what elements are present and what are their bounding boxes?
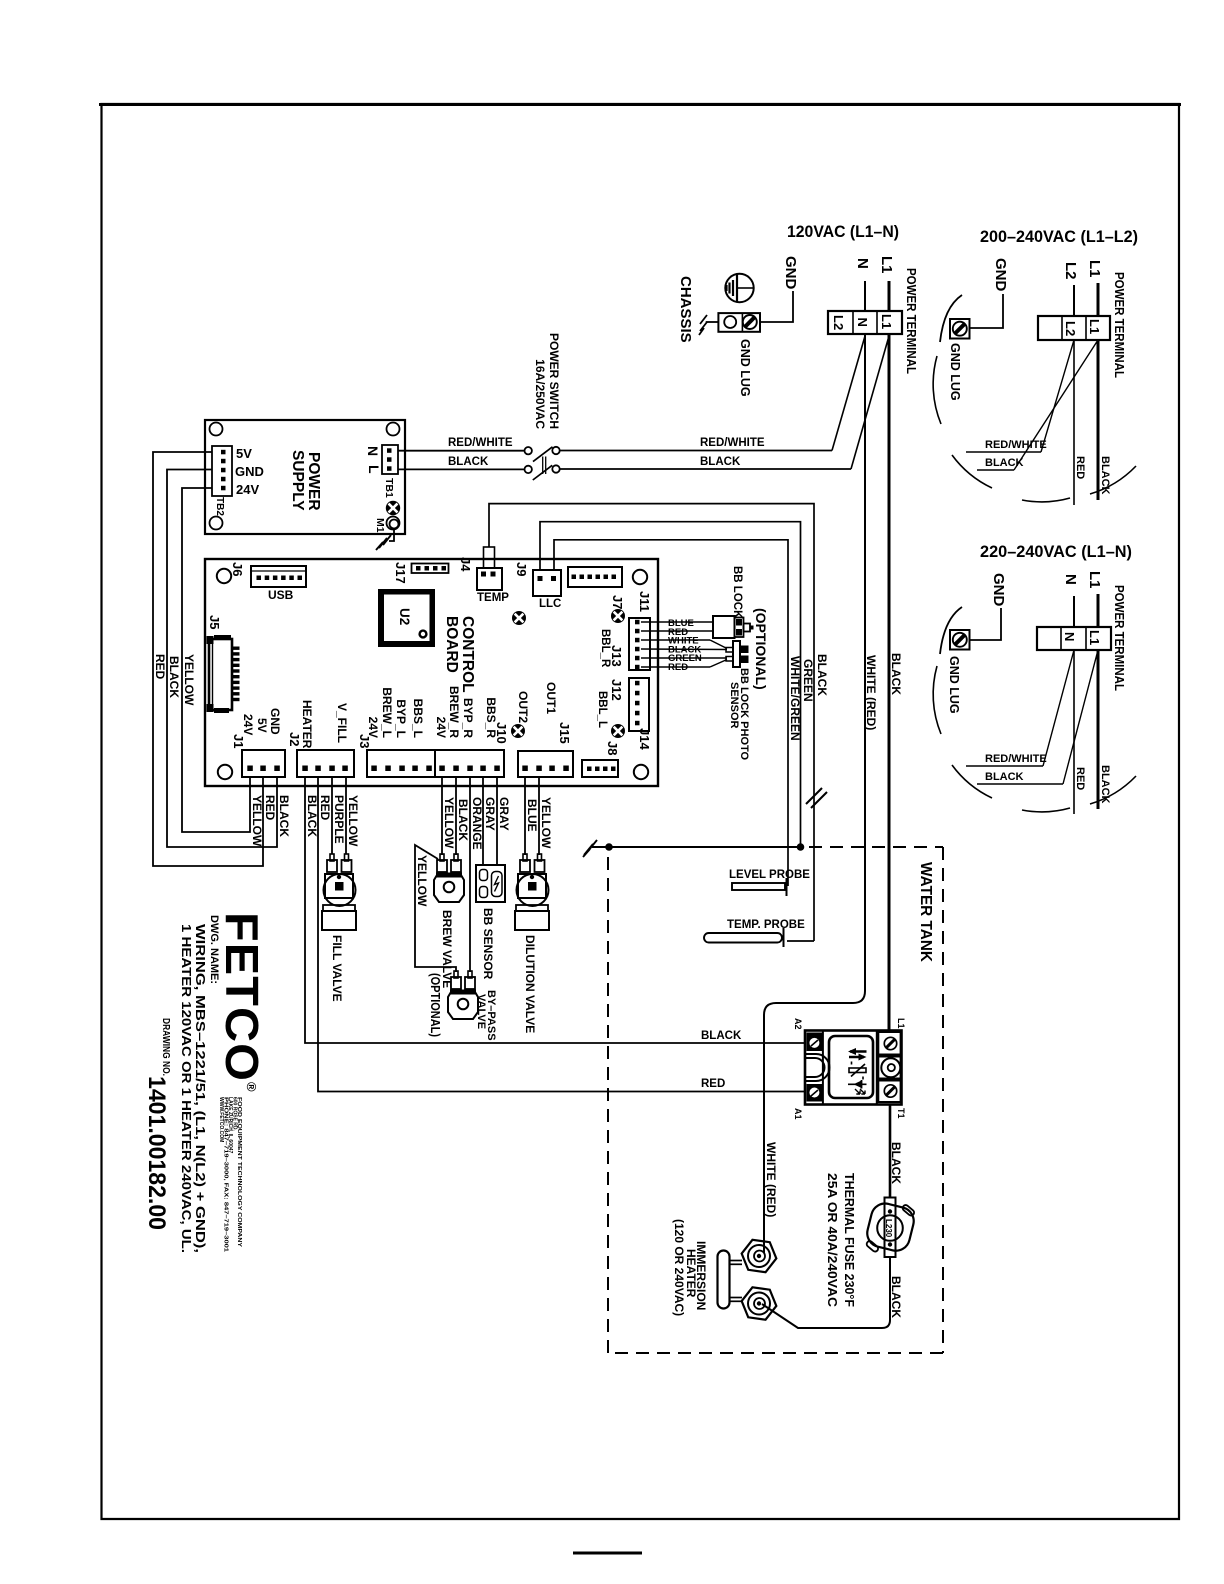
relay left terminal A1 [807, 1084, 823, 1102]
board corner holes [217, 569, 231, 583]
water tank dashed outline [620, 846, 943, 848]
wire 24V YELLOW [182, 488, 250, 832]
svg-text:BOARD: BOARD [443, 616, 460, 673]
svg-text:(OPTIONAL): (OPTIONAL) [428, 973, 442, 1037]
svg-text:GND: GND [268, 708, 282, 735]
protective earth symbol [725, 274, 753, 302]
svg-text:U2: U2 [397, 608, 412, 625]
svg-text:L1: L1 [1086, 571, 1103, 589]
svg-text:A1: A1 [793, 1108, 803, 1120]
by-pass valve (optional) [454, 971, 458, 978]
svg-text:L2: L2 [831, 315, 846, 330]
power switch S1 [525, 447, 532, 454]
relay terminal center [878, 1057, 900, 1079]
svg-text:POWER TERMINAL: POWER TERMINAL [1112, 272, 1126, 378]
relay symbol triac [849, 1068, 866, 1073]
svg-text:24V: 24V [236, 482, 259, 497]
svg-text:J17: J17 [393, 562, 408, 584]
svg-text:J15: J15 [557, 722, 572, 744]
relay left terminal A2 [807, 1033, 823, 1052]
svg-text:TB1: TB1 [383, 478, 395, 498]
svg-text:BLACK: BLACK [167, 656, 181, 698]
svg-text:GREEN: GREEN [801, 659, 815, 702]
svg-text:BLACK: BLACK [889, 653, 903, 695]
relay symbol diode [848, 1083, 867, 1085]
svg-text:TEMP: TEMP [477, 592, 509, 604]
svg-text:WHITE (RED): WHITE (RED) [764, 1142, 778, 1217]
svg-text:BLACK: BLACK [985, 771, 1024, 783]
wire N stub [864, 281, 866, 311]
svg-text:BLACK: BLACK [277, 795, 291, 837]
wire GREEN J9 to tank ground [540, 522, 801, 847]
svg-text:RED: RED [263, 795, 277, 821]
power terminal block 120VAC [828, 311, 902, 334]
svg-text:GND: GND [782, 256, 799, 290]
svg-text:T1: T1 [896, 1108, 906, 1119]
svg-text:120VAC (L1–N): 120VAC (L1–N) [787, 223, 899, 241]
connector TB1 [382, 445, 398, 474]
svg-text:J7: J7 [610, 595, 625, 609]
control board outline [205, 559, 658, 786]
svg-text:RED/WHITE: RED/WHITE [448, 437, 513, 449]
svg-text:BLACK: BLACK [305, 795, 319, 837]
svg-text:WWW.FETCO.COM: WWW.FETCO.COM [218, 1097, 224, 1142]
IC U2 [378, 589, 435, 647]
relay inner module [829, 1036, 873, 1098]
relay divider right [876, 1031, 878, 1105]
svg-text:J8: J8 [605, 741, 620, 755]
svg-text:FETCO: FETCO [216, 912, 268, 1082]
svg-text:BLACK: BLACK [448, 456, 489, 468]
svg-text:RED: RED [1074, 767, 1086, 790]
svg-text:RED: RED [1074, 456, 1086, 479]
svg-text:L1: L1 [1087, 630, 1102, 645]
wire GRAY J10 to BB sensor [482, 777, 484, 865]
wire ORANGE J10 to by-pass valve [469, 777, 471, 972]
svg-text:5V: 5V [255, 718, 269, 733]
svg-text:5V: 5V [236, 446, 252, 461]
svg-text:N: N [854, 258, 871, 269]
svg-text:BREW_R: BREW_R [447, 686, 461, 738]
wire fuse to heater BLACK [762, 1257, 890, 1329]
svg-text:L1: L1 [1086, 260, 1103, 278]
svg-text:GND LUG: GND LUG [948, 343, 962, 401]
svg-text:POWER SWITCH: POWER SWITCH [547, 333, 561, 429]
svg-text:BYP_L: BYP_L [394, 699, 408, 738]
brew valve [440, 854, 444, 861]
tank ground wire [592, 846, 801, 848]
svg-text:LEVEL PROBE: LEVEL PROBE [729, 869, 810, 881]
wire RED/WHITE switch to terminal [560, 450, 832, 452]
svg-text:WIRING, MBS–1221/51, (L1, N: WIRING, MBS–1221/51, (L1, N(L2) + GND), [193, 924, 208, 1253]
wire RED/WHITE 200 [966, 451, 1041, 453]
wire BLACK vertical 200 [1097, 340, 1100, 500]
svg-text:ORANGE: ORANGE [470, 797, 484, 850]
svg-text:BBS_R: BBS_R [484, 697, 498, 738]
svg-text:GND: GND [990, 573, 1007, 607]
svg-text:M1: M1 [374, 518, 386, 533]
svg-text:L1: L1 [1087, 319, 1102, 334]
wire GND BLACK [167, 470, 277, 848]
wire BLACK J4 to temp probe [489, 504, 814, 941]
svg-text:RED/WHITE: RED/WHITE [985, 753, 1047, 765]
wire YELLOW J10 to brew valve [441, 777, 443, 855]
J13 wires to BB lock [641, 621, 713, 623]
power terminal block 220 [1037, 627, 1111, 650]
svg-text:GND LUG: GND LUG [947, 656, 961, 714]
svg-text:DRAWING NO.: DRAWING NO. [160, 1018, 171, 1076]
relay U notch [806, 1054, 830, 1081]
svg-text:J14: J14 [637, 728, 652, 750]
svg-text:J5: J5 [207, 615, 222, 629]
wire 5V RED [153, 452, 263, 866]
svg-text:(OPTIONAL): (OPTIONAL) [753, 608, 769, 690]
svg-text:POWER TERMINAL: POWER TERMINAL [1112, 585, 1126, 691]
svg-text:CHASSIS: CHASSIS [677, 276, 694, 343]
wire N stub 220 [1073, 596, 1075, 627]
svg-text:WHITE (RED): WHITE (RED) [864, 655, 878, 730]
svg-text:J9: J9 [514, 562, 529, 576]
svg-text:BREW_L: BREW_L [380, 687, 394, 738]
wire WHITE/GREEN J9 to level probe [554, 540, 788, 886]
svg-text:BB SENSOR: BB SENSOR [481, 908, 495, 980]
svg-text:TEMP. PROBE: TEMP. PROBE [727, 919, 805, 931]
svg-text:YELLOW: YELLOW [539, 797, 553, 849]
svg-text:YELLOW: YELLOW [346, 795, 360, 847]
svg-text:1 HEATER 120VAC OR 1 HEAT: 1 HEATER 120VAC OR 1 HEATER 240VAC, UL. [179, 924, 194, 1253]
connector TB2 [212, 446, 232, 496]
svg-text:J11: J11 [637, 591, 652, 612]
wire YELLOW tap to by-pass valve [415, 845, 456, 972]
svg-text:WATER TANK: WATER TANK [917, 862, 934, 963]
svg-text:GND: GND [235, 464, 264, 479]
footer tick mark [573, 1552, 642, 1555]
svg-text:N: N [1062, 574, 1079, 585]
thermal fuse F1 [864, 1201, 916, 1254]
svg-text:BLACK: BLACK [889, 1276, 903, 1318]
svg-text:THERMAL FUSE 230°F: THERMAL FUSE 230°F [842, 1173, 857, 1307]
relay terminal L1 [878, 1032, 900, 1055]
svg-text:N: N [365, 446, 381, 456]
svg-text:DILUTION VALVE: DILUTION VALVE [523, 935, 537, 1033]
svg-text:HEATER: HEATER [300, 700, 314, 749]
immersion heater HTR1 [742, 1240, 777, 1272]
wire GND to lug [761, 291, 793, 322]
wire RED J2 to relay A1 [318, 777, 805, 1092]
wire RED/WHITE TB1 to switch [398, 450, 525, 452]
svg-text:J1: J1 [231, 734, 246, 748]
svg-text:BLACK: BLACK [815, 654, 829, 696]
svg-text:BBL_L: BBL_L [596, 691, 608, 728]
svg-text:RED/WHITE: RED/WHITE [985, 439, 1047, 451]
svg-text:L230: L230 [884, 1219, 893, 1238]
svg-text:YELLOW: YELLOW [442, 797, 456, 849]
svg-text:BLACK: BLACK [985, 457, 1024, 469]
svg-text:PURPLE: PURPLE [332, 795, 346, 844]
svg-text:RED/WHITE: RED/WHITE [700, 437, 765, 449]
chassis ground lug GND LUG [718, 313, 760, 332]
wire BLACK TB1 to switch [398, 468, 525, 470]
ground lug 200 [950, 319, 970, 339]
board screw near J10 [511, 724, 525, 738]
svg-text:(120 OR 240VAC): (120 OR 240VAC) [672, 1219, 686, 1316]
svg-text:®: ® [244, 1082, 259, 1092]
wire RED vertical 200 [1073, 340, 1075, 505]
svg-text:BLACK: BLACK [456, 799, 470, 841]
svg-text:L: L [366, 465, 382, 474]
board screw near J17 [512, 611, 526, 625]
feed wire BLACK L1 [888, 334, 891, 1031]
svg-text:220–240VAC (L1–N): 220–240VAC (L1–N) [980, 543, 1132, 561]
svg-text:BLACK: BLACK [701, 1030, 742, 1042]
svg-text:A2: A2 [793, 1018, 803, 1030]
relay symbol arrows [850, 1050, 867, 1053]
wire BLACK 200 [977, 469, 1014, 471]
ground at M1 [389, 528, 394, 541]
svg-text:N: N [855, 318, 870, 327]
svg-text:BLACK: BLACK [889, 1142, 903, 1184]
svg-text:FILL VALVE: FILL VALVE [330, 935, 344, 1002]
fill valve [330, 854, 334, 861]
wire L1 stub [888, 281, 891, 311]
ground lug 220 [950, 630, 970, 650]
svg-text:L2: L2 [1062, 262, 1079, 280]
relay K1 outline [805, 1031, 902, 1105]
svg-text:24V: 24V [366, 717, 380, 738]
svg-text:GND: GND [992, 258, 1009, 292]
svg-text:YELLOW: YELLOW [250, 795, 264, 847]
detail arcs 220 [933, 666, 941, 734]
wire L1 stub 200 [1097, 283, 1100, 316]
svg-text:RED: RED [318, 795, 332, 821]
svg-text:YELLOW: YELLOW [182, 654, 196, 706]
screw M1 [386, 501, 400, 515]
svg-text:VALVE: VALVE [475, 994, 487, 1029]
page frame border [102, 104, 1180, 1519]
svg-text:WHITE/GREEN: WHITE/GREEN [788, 656, 802, 741]
svg-text:16A/250VAC: 16A/250VAC [533, 359, 547, 429]
chassis symbol tank [588, 840, 597, 851]
svg-text:L2: L2 [1063, 321, 1078, 336]
svg-text:L1: L1 [896, 1018, 906, 1029]
svg-text:SENSOR: SENSOR [728, 682, 740, 729]
wire L1 stub 220 [1097, 594, 1100, 627]
wire BLACK vertical 220 [1097, 650, 1100, 809]
wire BLACK switch to terminal [560, 468, 851, 470]
svg-text:BLUE: BLUE [525, 799, 539, 832]
svg-text:GND LUG: GND LUG [738, 339, 752, 397]
feed wire WHITE (RED) [764, 334, 865, 1253]
svg-text:TB2: TB2 [214, 497, 225, 516]
wire YELLOW J15 to dilution valve [538, 777, 540, 855]
svg-text:LLC: LLC [539, 598, 561, 610]
wire BLACK 220 [977, 783, 1063, 785]
svg-text:L1: L1 [878, 256, 895, 274]
svg-text:V_FILL: V_FILL [335, 703, 349, 743]
relay terminal T1 [878, 1081, 900, 1103]
svg-text:YELLOW: YELLOW [415, 855, 429, 907]
svg-text:BBS_L: BBS_L [411, 699, 425, 738]
svg-text:USB: USB [268, 588, 294, 602]
wire RED vertical 220 [1073, 650, 1075, 814]
svg-text:SUPPLY: SUPPLY [289, 450, 306, 511]
svg-text:1401.00182.00: 1401.00182.00 [143, 1076, 170, 1230]
BB lock photo sensor [733, 641, 740, 667]
svg-text:24V: 24V [434, 717, 448, 738]
svg-text:RED: RED [701, 1078, 725, 1090]
svg-text:24V: 24V [241, 714, 255, 735]
svg-text:POWER: POWER [305, 452, 322, 511]
svg-text:N: N [1062, 632, 1077, 641]
svg-text:J12: J12 [609, 679, 624, 701]
wire BLACK J10 to brew valve [455, 777, 457, 855]
chassis symbol at lug [706, 321, 719, 323]
svg-text:25A OR 40A/240VAC: 25A OR 40A/240VAC [825, 1173, 840, 1308]
wire RED/WHITE 220 [966, 765, 1043, 767]
svg-text:BYP_R: BYP_R [461, 698, 475, 738]
svg-text:GRAY: GRAY [497, 797, 511, 831]
svg-text:OUT1: OUT1 [544, 682, 558, 714]
svg-text:RED: RED [668, 662, 688, 673]
relay divider left [822, 1031, 824, 1105]
wire GRAY 2 J10 to BB sensor [496, 777, 498, 865]
svg-text:POWER TERMINAL: POWER TERMINAL [904, 268, 918, 374]
dilution valve [523, 854, 527, 861]
wire break symbol [806, 788, 822, 804]
svg-text:200–240VAC (L1–L2): 200–240VAC (L1–L2) [980, 228, 1138, 246]
svg-text:L1: L1 [879, 314, 894, 329]
wire BLACK J2 to relay A2 [305, 777, 805, 1043]
svg-text:J2: J2 [287, 732, 302, 746]
svg-text:GRAY: GRAY [483, 797, 497, 831]
power terminal block 200 [1038, 316, 1110, 340]
wire relay T1 to fuse [889, 1105, 892, 1199]
svg-text:OUT2: OUT2 [516, 691, 530, 723]
detail arcs 200 [933, 356, 941, 424]
wire L2 stub 200 [1073, 285, 1075, 316]
wire BLUE J15 to dilution valve [524, 777, 526, 855]
svg-text:RED: RED [153, 654, 167, 680]
wire GND to lug 220 [970, 608, 1001, 640]
BB sensor [476, 865, 505, 902]
svg-text:BBL_R: BBL_R [599, 629, 611, 668]
svg-text:BLACK: BLACK [700, 456, 741, 468]
svg-text:J6: J6 [230, 562, 245, 576]
wire PURPLE J2 to fill valve [331, 777, 333, 854]
wire YELLOW J2 to fill valve [345, 777, 347, 854]
wire GND to lug 200 [969, 294, 1003, 328]
power supply box [205, 420, 405, 534]
svg-text:J4: J4 [458, 557, 473, 572]
svg-text:BB LOCK: BB LOCK [731, 566, 743, 619]
svg-text:CONTROL: CONTROL [459, 616, 476, 693]
